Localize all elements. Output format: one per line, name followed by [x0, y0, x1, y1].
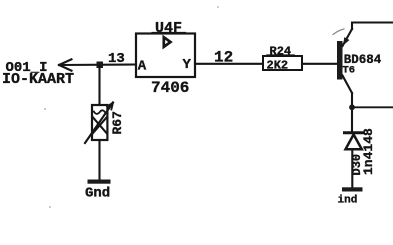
svg-text:Gnd: Gnd — [85, 186, 110, 202]
diode D30 1n4148 — [345, 133, 363, 150]
ground Gnd — [88, 180, 111, 184]
wire diode to ind rail — [351, 149, 353, 187]
node junction collector — [349, 104, 355, 110]
wire junction to right edge — [352, 106, 393, 108]
wire input net with left arrow — [59, 59, 136, 70]
svg-text:T6: T6 — [343, 65, 356, 77]
svg-text:13: 13 — [108, 51, 125, 67]
svg-text:1n4148: 1n4148 — [361, 128, 376, 175]
svg-text:U4F: U4F — [155, 20, 182, 37]
wire R67 to ground — [98, 140, 100, 180]
svg-text:A: A — [138, 59, 147, 75]
scan speckles — [44, 108, 46, 110]
resistor R67 (variable, box with X) — [85, 103, 113, 144]
op-amp U1: inverter gate U4F 7406 — [136, 33, 195, 77]
svg-text:IO-KAART: IO-KAART — [2, 71, 74, 88]
svg-text:R67: R67 — [110, 111, 125, 134]
scan scratch near emitter — [333, 29, 344, 35]
wire collector down — [351, 93, 353, 132]
svg-text:ind: ind — [338, 195, 358, 207]
wire emitter to top rail — [352, 23, 393, 30]
wire gate output to R24 — [195, 63, 263, 65]
svg-text:12: 12 — [214, 49, 233, 67]
svg-text:2K2: 2K2 — [267, 59, 289, 73]
node junction input net — [97, 62, 104, 69]
svg-text:7406: 7406 — [151, 79, 189, 97]
wire R24 to transistor base — [302, 63, 337, 65]
resistor R24 — [263, 55, 302, 70]
transistor Q1 BD684 (PNP) — [337, 29, 352, 93]
svg-text:R24: R24 — [270, 45, 292, 59]
wire junction to R67 — [98, 65, 100, 105]
power rail ind — [342, 187, 363, 191]
svg-text:Y: Y — [183, 57, 192, 73]
